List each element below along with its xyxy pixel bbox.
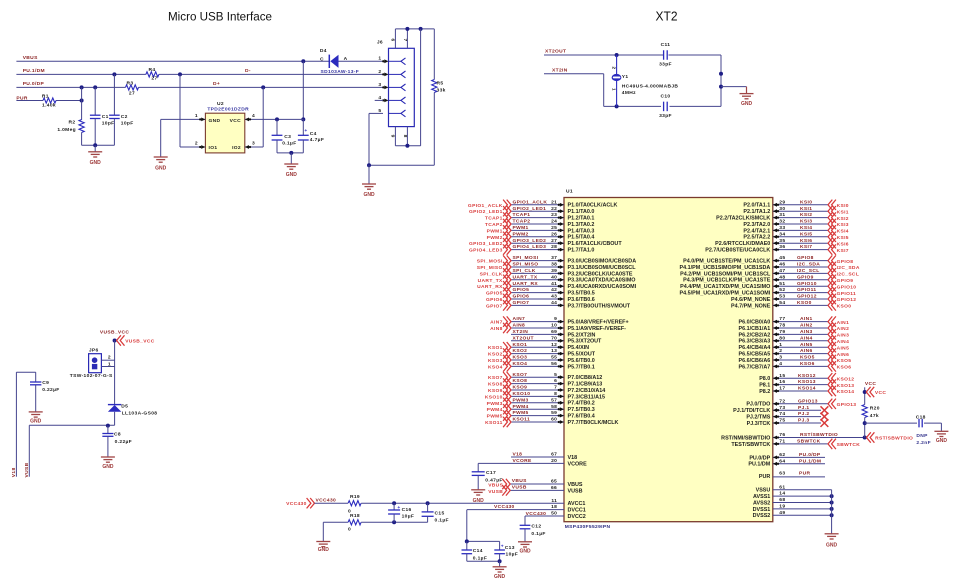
- svg-text:74: 74: [779, 411, 785, 417]
- svg-text:GPIO13: GPIO13: [837, 402, 857, 408]
- svg-text:SBWTCK: SBWTCK: [797, 439, 821, 445]
- svg-text:0: 0: [348, 527, 351, 533]
- svg-text:5: 5: [554, 372, 557, 378]
- svg-text:P1.3/TA0.2: P1.3/TA0.2: [568, 222, 595, 228]
- svg-text:56: 56: [551, 361, 557, 367]
- svg-text:MSP430F5529IPN: MSP430F5529IPN: [565, 524, 611, 530]
- svg-text:AIN6: AIN6: [800, 348, 813, 354]
- svg-text:GPIO13: GPIO13: [798, 398, 818, 404]
- svg-text:C10: C10: [660, 94, 670, 100]
- svg-text:P5.5/XOUT: P5.5/XOUT: [568, 352, 596, 358]
- svg-text:8: 8: [402, 135, 408, 138]
- svg-text:KSO12: KSO12: [798, 373, 816, 379]
- svg-text:69: 69: [551, 329, 557, 335]
- svg-text:KSI6: KSI6: [800, 238, 812, 244]
- svg-text:AIN8: AIN8: [513, 323, 526, 329]
- svg-text:KSI5: KSI5: [800, 231, 812, 237]
- svg-text:VCORE: VCORE: [513, 458, 533, 464]
- svg-text:GPIO4_LED3: GPIO4_LED3: [513, 244, 547, 250]
- svg-text:P5.1/A9/VREF-/VEREF-: P5.1/A9/VREF-/VEREF-: [568, 326, 627, 332]
- svg-text:PU.0/DP: PU.0/DP: [799, 452, 821, 458]
- svg-text:KSI0: KSI0: [800, 199, 812, 205]
- svg-text:P5.2/XT2IN: P5.2/XT2IN: [568, 332, 596, 338]
- svg-text:3: 3: [779, 355, 782, 361]
- svg-text:+: +: [501, 544, 504, 549]
- svg-text:12: 12: [551, 342, 557, 348]
- svg-text:V18: V18: [568, 455, 578, 461]
- svg-text:P4.4/PM_UCA1TXD/PM_UCA1SIMO: P4.4/PM_UCA1TXD/PM_UCA1SIMO: [680, 284, 770, 290]
- svg-text:VUSB: VUSB: [568, 488, 583, 494]
- svg-text:GPIO10: GPIO10: [797, 281, 817, 287]
- svg-text:GPIO6: GPIO6: [513, 294, 530, 300]
- svg-text:P2.2/TA2CLK/SMCLK: P2.2/TA2CLK/SMCLK: [716, 216, 770, 222]
- svg-text:P2.4/TA2.1: P2.4/TA2.1: [743, 228, 770, 234]
- svg-text:D-: D-: [245, 68, 251, 74]
- svg-text:P4.1/PM_UCB1SIMO/PM_UCB1SDA: P4.1/PM_UCB1SIMO/PM_UCB1SDA: [680, 265, 771, 271]
- svg-text:KSI1: KSI1: [800, 206, 812, 212]
- svg-text:KSI5: KSI5: [837, 235, 849, 241]
- svg-text:GND: GND: [102, 464, 114, 470]
- svg-text:10pF: 10pF: [121, 121, 134, 127]
- svg-text:AIN5: AIN5: [837, 345, 850, 351]
- svg-text:I2C_SDA: I2C_SDA: [797, 262, 820, 268]
- svg-text:KSO12: KSO12: [837, 376, 855, 382]
- svg-text:KSI4: KSI4: [837, 229, 849, 235]
- svg-text:0.1µF: 0.1µF: [435, 518, 449, 524]
- svg-text:KSO8: KSO8: [488, 382, 503, 388]
- svg-text:KSO13: KSO13: [798, 379, 816, 385]
- svg-text:1: 1: [195, 113, 198, 119]
- svg-text:41: 41: [551, 281, 557, 287]
- svg-text:KSO11: KSO11: [513, 417, 531, 423]
- svg-text:P2.7/UCB0STE/UCA0CLK: P2.7/UCB0STE/UCA0CLK: [705, 248, 770, 254]
- svg-text:C1: C1: [102, 114, 109, 120]
- svg-text:24: 24: [551, 219, 557, 225]
- svg-text:30: 30: [779, 206, 785, 212]
- svg-text:VBUS: VBUS: [488, 482, 503, 488]
- svg-text:34: 34: [779, 231, 785, 237]
- svg-text:U1: U1: [566, 188, 573, 194]
- svg-text:KSO3: KSO3: [488, 358, 503, 364]
- svg-text:AIN6: AIN6: [837, 352, 850, 358]
- svg-text:GND: GND: [209, 118, 221, 124]
- svg-text:37: 37: [551, 255, 557, 261]
- svg-text:P5.3/XT2OUT: P5.3/XT2OUT: [568, 339, 603, 345]
- svg-text:TCAP1: TCAP1: [485, 216, 503, 222]
- svg-text:C13: C13: [505, 545, 515, 551]
- svg-text:GPIO6: GPIO6: [486, 297, 503, 303]
- svg-text:PWM5: PWM5: [513, 410, 529, 416]
- svg-text:70: 70: [551, 335, 557, 341]
- svg-text:19: 19: [779, 504, 785, 510]
- svg-text:AIN1: AIN1: [837, 320, 850, 326]
- svg-text:KSO6: KSO6: [800, 361, 815, 367]
- svg-text:VUSB_VCC: VUSB_VCC: [125, 339, 155, 345]
- svg-text:SBWTCK: SBWTCK: [837, 442, 861, 448]
- svg-text:GPIO11: GPIO11: [837, 291, 857, 297]
- svg-text:10: 10: [551, 323, 557, 329]
- svg-text:GPIO9: GPIO9: [837, 278, 854, 284]
- svg-text:KSI7: KSI7: [800, 244, 812, 250]
- svg-text:PJ.0/TDO: PJ.0/TDO: [746, 402, 770, 408]
- svg-text:AVSS1: AVSS1: [753, 494, 770, 500]
- svg-text:VCC: VCC: [230, 118, 241, 124]
- svg-text:27: 27: [129, 91, 135, 97]
- svg-text:P4.2/PM_UCB1SOMI/PM_UCB1SCL: P4.2/PM_UCB1SOMI/PM_UCB1SCL: [680, 271, 771, 277]
- svg-text:P7.3/CB11/A15: P7.3/CB11/A15: [568, 394, 605, 400]
- svg-text:P1.5/TA0.4: P1.5/TA0.4: [568, 235, 595, 241]
- svg-text:+: +: [397, 506, 400, 511]
- svg-text:P3.7/TB0OUTH/SVMOUT: P3.7/TB0OUTH/SVMOUT: [568, 303, 631, 309]
- svg-text:49: 49: [779, 510, 785, 516]
- svg-text:2: 2: [779, 348, 782, 354]
- svg-text:P2.3/TA2.0: P2.3/TA2.0: [743, 222, 770, 228]
- svg-text:KSO0: KSO0: [797, 300, 812, 306]
- svg-text:46: 46: [779, 262, 785, 268]
- svg-text:18: 18: [551, 504, 557, 510]
- svg-text:C14: C14: [473, 548, 483, 554]
- svg-text:RST/SBWTDIO: RST/SBWTDIO: [875, 436, 913, 442]
- svg-text:57: 57: [551, 397, 557, 403]
- svg-text:KSO1: KSO1: [488, 345, 503, 351]
- svg-text:VCC430: VCC430: [494, 504, 515, 510]
- svg-text:C17: C17: [486, 470, 496, 476]
- svg-text:79: 79: [779, 329, 785, 335]
- svg-text:1: 1: [378, 56, 381, 62]
- svg-text:1.40k: 1.40k: [42, 102, 56, 108]
- svg-text:GND: GND: [30, 418, 42, 424]
- svg-text:GPIO3_LED2: GPIO3_LED2: [469, 241, 503, 247]
- svg-text:U2: U2: [217, 101, 224, 107]
- svg-text:DNP: DNP: [916, 433, 928, 439]
- svg-text:43: 43: [551, 294, 557, 300]
- svg-text:GPIO5: GPIO5: [513, 287, 530, 293]
- svg-text:JP6: JP6: [89, 348, 99, 354]
- svg-text:2: 2: [612, 67, 617, 70]
- svg-text:21: 21: [551, 199, 557, 205]
- svg-text:25: 25: [551, 225, 557, 231]
- svg-text:60: 60: [551, 417, 557, 423]
- svg-text:P7.6/TB0.4: P7.6/TB0.4: [568, 414, 595, 420]
- svg-text:78: 78: [779, 323, 785, 329]
- svg-text:P5.7/TB0.1: P5.7/TB0.1: [568, 364, 595, 370]
- svg-text:P6.1/CB1/A1: P6.1/CB1/A1: [739, 326, 771, 332]
- svg-text:1: 1: [612, 88, 617, 91]
- svg-text:KSO4: KSO4: [513, 361, 528, 367]
- svg-text:3: 3: [252, 141, 255, 147]
- svg-text:VUSB: VUSB: [24, 462, 30, 477]
- svg-text:XT2OUT: XT2OUT: [545, 49, 566, 55]
- svg-text:GPIO12: GPIO12: [797, 294, 817, 300]
- svg-text:2.2nF: 2.2nF: [916, 440, 931, 446]
- svg-text:AIN3: AIN3: [837, 333, 850, 339]
- svg-text:PU.1/DM: PU.1/DM: [799, 458, 821, 464]
- svg-text:16: 16: [779, 379, 785, 385]
- svg-text:RST/SBWTDIO: RST/SBWTDIO: [800, 432, 838, 438]
- svg-text:AIN5: AIN5: [800, 342, 813, 348]
- svg-text:KSO2: KSO2: [513, 348, 528, 354]
- svg-text:52: 52: [779, 287, 785, 293]
- svg-text:KSO1: KSO1: [513, 342, 528, 348]
- svg-text:I2C_SDA: I2C_SDA: [837, 265, 860, 271]
- svg-text:P7.7/TB0CLK/MCLK: P7.7/TB0CLK/MCLK: [568, 420, 619, 426]
- svg-text:KSI7: KSI7: [837, 248, 849, 254]
- svg-text:61: 61: [779, 484, 785, 490]
- svg-text:PWM3: PWM3: [513, 397, 529, 403]
- svg-text:R1: R1: [42, 93, 49, 99]
- svg-text:AIN7: AIN7: [490, 320, 503, 326]
- svg-text:31: 31: [779, 212, 785, 218]
- svg-text:P2.0/TA1.1: P2.0/TA1.1: [743, 203, 770, 209]
- svg-text:P1.2/TA0.1: P1.2/TA0.1: [568, 216, 595, 222]
- svg-text:SPI_MOSI: SPI_MOSI: [513, 255, 539, 261]
- svg-text:33: 33: [779, 225, 785, 231]
- svg-text:VBUS: VBUS: [568, 482, 583, 488]
- svg-text:R3: R3: [127, 80, 134, 86]
- svg-text:GPIO11: GPIO11: [797, 287, 817, 293]
- svg-text:6: 6: [390, 38, 396, 41]
- svg-text:AIN7: AIN7: [513, 316, 526, 322]
- svg-text:P5.0/A8/VREF+/VEREF+: P5.0/A8/VREF+/VEREF+: [568, 320, 629, 326]
- svg-text:55: 55: [551, 355, 557, 361]
- svg-text:39: 39: [551, 268, 557, 274]
- svg-text:VUSB: VUSB: [488, 489, 503, 495]
- svg-text:33pF: 33pF: [659, 113, 672, 119]
- svg-text:3: 3: [378, 82, 381, 88]
- svg-text:4MHz: 4MHz: [622, 90, 636, 96]
- svg-text:GND: GND: [936, 438, 948, 444]
- svg-text:TEST/SBWTCK: TEST/SBWTCK: [731, 442, 770, 448]
- svg-text:0.1µF: 0.1µF: [531, 531, 545, 537]
- svg-text:AVSS2: AVSS2: [753, 500, 770, 506]
- svg-text:P8.0: P8.0: [759, 376, 770, 382]
- svg-text:53: 53: [779, 294, 785, 300]
- svg-text:C11: C11: [661, 42, 671, 48]
- svg-text:AIN2: AIN2: [837, 326, 850, 332]
- svg-text:47: 47: [779, 268, 785, 274]
- svg-text:4: 4: [779, 361, 782, 367]
- svg-text:VCC: VCC: [865, 381, 876, 387]
- svg-text:VCORE: VCORE: [568, 461, 588, 467]
- svg-text:PJ.3/TCK: PJ.3/TCK: [747, 421, 771, 427]
- svg-text:P1.7/TA1.0: P1.7/TA1.0: [568, 248, 595, 254]
- svg-text:P5.6/TB0.0: P5.6/TB0.0: [568, 358, 595, 364]
- svg-text:2: 2: [195, 141, 198, 147]
- svg-text:GPIO2_LED1: GPIO2_LED1: [469, 209, 503, 215]
- svg-text:RST/NMI/SBWTDIO: RST/NMI/SBWTDIO: [721, 435, 770, 441]
- svg-text:KSI6: KSI6: [837, 241, 849, 247]
- svg-text:75: 75: [779, 418, 785, 424]
- svg-text:77: 77: [779, 316, 785, 322]
- svg-text:P7.0/CB8/A12: P7.0/CB8/A12: [568, 375, 603, 381]
- svg-text:33pF: 33pF: [659, 62, 672, 68]
- svg-text:C: C: [320, 56, 324, 62]
- svg-text:PWM2: PWM2: [513, 231, 529, 237]
- svg-text:C18: C18: [916, 414, 926, 420]
- svg-text:KSI2: KSI2: [837, 216, 849, 222]
- svg-text:KSO10: KSO10: [513, 391, 531, 397]
- svg-text:KSI2: KSI2: [800, 212, 812, 218]
- svg-text:PWM4: PWM4: [513, 404, 529, 410]
- svg-text:GPIO10: GPIO10: [837, 284, 857, 290]
- svg-text:P7.4/TB0.2: P7.4/TB0.2: [568, 401, 595, 407]
- svg-text:P8.1: P8.1: [759, 383, 770, 389]
- svg-text:28: 28: [551, 244, 557, 250]
- svg-text:P4.0/PM_UCB1STE/PM_UCA1CLK: P4.0/PM_UCB1STE/PM_UCA1CLK: [683, 259, 770, 265]
- svg-text:GND: GND: [90, 160, 102, 166]
- svg-text:C8: C8: [114, 432, 121, 438]
- svg-text:R19: R19: [350, 494, 360, 500]
- svg-text:KSO8: KSO8: [513, 378, 528, 384]
- svg-text:0.1µF: 0.1µF: [282, 141, 296, 147]
- svg-text:SPI_CLK: SPI_CLK: [513, 268, 536, 274]
- svg-text:P1.1/TA0.0: P1.1/TA0.0: [568, 209, 595, 215]
- svg-text:XT2OUT: XT2OUT: [513, 335, 534, 341]
- svg-text:50: 50: [551, 511, 557, 517]
- svg-text:I2C_SCL: I2C_SCL: [797, 268, 820, 274]
- svg-text:I2C_SCL: I2C_SCL: [837, 272, 860, 278]
- svg-text:0.22µF: 0.22µF: [42, 387, 59, 393]
- svg-text:47k: 47k: [870, 413, 879, 419]
- svg-text:DVCC1: DVCC1: [568, 508, 586, 514]
- svg-text:KSO4: KSO4: [488, 364, 503, 370]
- svg-text:13: 13: [551, 348, 557, 354]
- svg-text:GPIO2_LED1: GPIO2_LED1: [513, 206, 547, 212]
- svg-text:PU.0/DP: PU.0/DP: [749, 455, 770, 461]
- svg-text:GND: GND: [286, 172, 298, 178]
- svg-text:40: 40: [551, 274, 557, 280]
- svg-text:PJ.1: PJ.1: [798, 405, 809, 411]
- svg-text:KSO5: KSO5: [837, 358, 852, 364]
- svg-text:2: 2: [108, 354, 111, 360]
- svg-text:XT2IN: XT2IN: [513, 329, 529, 335]
- svg-text:GPIO12: GPIO12: [837, 297, 857, 303]
- svg-text:54: 54: [779, 300, 785, 306]
- svg-text:C12: C12: [531, 524, 541, 530]
- svg-text:GND: GND: [363, 192, 375, 198]
- svg-text:4.7µF: 4.7µF: [310, 137, 324, 143]
- svg-text:26: 26: [551, 231, 557, 237]
- svg-text:80: 80: [779, 335, 785, 341]
- svg-text:GND: GND: [826, 543, 838, 549]
- svg-text:AIN8: AIN8: [490, 326, 503, 332]
- svg-text:32: 32: [779, 219, 785, 225]
- svg-text:C3: C3: [284, 134, 291, 140]
- svg-text:Y1: Y1: [622, 74, 629, 80]
- svg-text:62: 62: [779, 452, 785, 458]
- svg-text:UART_RX: UART_RX: [513, 281, 539, 287]
- svg-text:GND: GND: [494, 574, 506, 580]
- svg-text:GPIO7: GPIO7: [486, 303, 503, 309]
- svg-text:P6.7/CB7/A7: P6.7/CB7/A7: [739, 364, 771, 370]
- svg-text:PWM4: PWM4: [487, 407, 503, 413]
- svg-text:PJ.3: PJ.3: [798, 418, 809, 424]
- svg-text:SPI_MISO: SPI_MISO: [477, 265, 503, 271]
- svg-text:PU.0/DP: PU.0/DP: [23, 81, 45, 87]
- svg-text:PWM2: PWM2: [487, 235, 503, 241]
- svg-text:TCAP1: TCAP1: [513, 212, 531, 218]
- svg-text:GPIO3_LED2: GPIO3_LED2: [513, 238, 547, 244]
- svg-text:P7.1/CB9/A13: P7.1/CB9/A13: [568, 382, 603, 388]
- svg-text:11: 11: [551, 498, 557, 504]
- svg-text:XT2IN: XT2IN: [552, 68, 568, 74]
- svg-text:GPIO5: GPIO5: [486, 291, 503, 297]
- svg-text:TPD2E001DZDR: TPD2E001DZDR: [207, 107, 249, 113]
- svg-text:PUR: PUR: [16, 96, 27, 102]
- svg-text:0.1µF: 0.1µF: [473, 556, 487, 562]
- svg-text:KSO11: KSO11: [485, 420, 503, 426]
- svg-text:R4: R4: [149, 67, 156, 73]
- svg-text:45: 45: [779, 255, 785, 261]
- svg-text:P6.6/CB6/A6: P6.6/CB6/A6: [739, 358, 771, 364]
- svg-text:P2.6/RTCCLK/DMAE0: P2.6/RTCCLK/DMAE0: [715, 241, 770, 247]
- svg-text:C2: C2: [121, 114, 128, 120]
- svg-text:C16: C16: [402, 507, 412, 513]
- svg-text:AIN1: AIN1: [800, 316, 813, 322]
- svg-text:PWM1: PWM1: [487, 228, 503, 234]
- svg-text:D+: D+: [213, 81, 220, 87]
- svg-text:0.22µF: 0.22µF: [115, 439, 132, 445]
- svg-text:GPIO7: GPIO7: [513, 300, 530, 306]
- svg-text:UART_TX: UART_TX: [478, 278, 503, 284]
- svg-text:44: 44: [551, 300, 557, 306]
- svg-text:KSO0: KSO0: [837, 304, 852, 310]
- svg-text:GND: GND: [318, 547, 330, 553]
- svg-text:J6: J6: [377, 40, 383, 46]
- svg-text:GPIO8: GPIO8: [797, 255, 814, 261]
- svg-text:8: 8: [554, 391, 557, 397]
- svg-text:GPIO8: GPIO8: [837, 259, 854, 265]
- svg-text:1: 1: [779, 342, 782, 348]
- svg-text:R2: R2: [69, 120, 76, 126]
- svg-text:17: 17: [779, 386, 785, 392]
- svg-text:P2.5/TA2.2: P2.5/TA2.2: [743, 235, 770, 241]
- svg-text:64: 64: [779, 458, 785, 464]
- svg-text:DVSS1: DVSS1: [753, 507, 771, 513]
- svg-text:R5: R5: [437, 81, 444, 87]
- svg-text:72: 72: [779, 398, 785, 404]
- svg-text:7: 7: [402, 38, 408, 41]
- svg-text:SD103AW-13-F: SD103AW-13-F: [321, 69, 360, 75]
- svg-text:V18: V18: [513, 452, 523, 458]
- svg-text:P1.6/TA1CLK/CBOUT: P1.6/TA1CLK/CBOUT: [568, 241, 623, 247]
- svg-text:KSO14: KSO14: [798, 386, 816, 392]
- svg-text:63: 63: [779, 471, 785, 477]
- svg-text:KSI1: KSI1: [837, 209, 849, 215]
- svg-text:VUSB_VCC: VUSB_VCC: [100, 330, 130, 336]
- svg-text:P3.2/UCB0CLK/UCA0STE: P3.2/UCB0CLK/UCA0STE: [568, 271, 633, 277]
- svg-text:AVCC1: AVCC1: [568, 501, 586, 507]
- svg-text:P1.0/TA0CLK/ACLK: P1.0/TA0CLK/ACLK: [568, 203, 618, 209]
- svg-text:TCAP2: TCAP2: [513, 219, 531, 225]
- svg-text:SPI_MOSI: SPI_MOSI: [477, 259, 503, 265]
- svg-text:D5: D5: [121, 403, 128, 409]
- svg-text:PUR: PUR: [759, 474, 770, 480]
- svg-text:UART_TX: UART_TX: [513, 274, 538, 280]
- svg-text:HC49US-4.000MABJB: HC49US-4.000MABJB: [622, 84, 679, 90]
- svg-text:Micro USB Interface: Micro USB Interface: [168, 10, 272, 24]
- svg-text:P3.1/UCB0SOMI/UCB0SCL: P3.1/UCB0SOMI/UCB0SCL: [568, 265, 637, 271]
- svg-text:59: 59: [551, 410, 557, 416]
- svg-text:PUR: PUR: [799, 471, 810, 477]
- svg-text:P2.1/TA1.2: P2.1/TA1.2: [743, 209, 770, 215]
- svg-text:KSI3: KSI3: [800, 219, 812, 225]
- svg-text:P7.5/TB0.3: P7.5/TB0.3: [568, 407, 595, 413]
- svg-text:KSO2: KSO2: [488, 352, 503, 358]
- svg-text:GPIO9: GPIO9: [797, 274, 814, 280]
- svg-text:AIN4: AIN4: [800, 335, 813, 341]
- svg-text:35: 35: [779, 238, 785, 244]
